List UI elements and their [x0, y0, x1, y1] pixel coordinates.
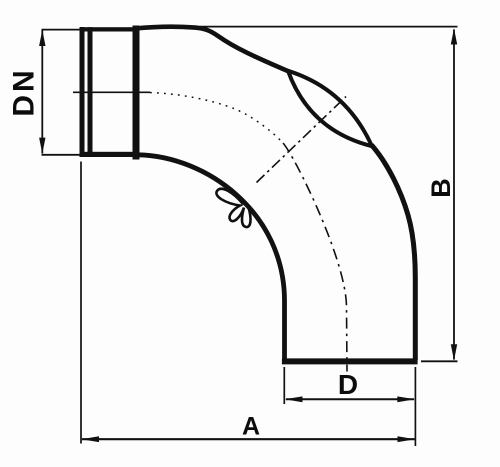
D arrow left	[285, 396, 303, 402]
D left extension line	[283, 367, 285, 404]
svg-text:DN: DN	[8, 67, 41, 116]
DN dimension line	[41, 31, 43, 154]
DN arrow down	[39, 138, 45, 154]
B arrow down	[451, 344, 457, 360]
pipe centerline horizontal segment	[73, 91, 150, 93]
outer wall: seam to outlet	[372, 145, 416, 360]
pipe centerline bend arc lower (dash-dot)	[283, 143, 347, 372]
pipe centerline bend arc (dotted)	[150, 93, 283, 143]
A arrow left	[81, 436, 99, 442]
socket-to-bend junction line	[133, 26, 140, 160]
outer wall: socket to seam	[135, 27, 290, 72]
DN arrow up	[39, 30, 45, 46]
B arrow up	[451, 28, 457, 44]
B bottom extension line	[421, 360, 458, 362]
DN top extension line	[42, 29, 85, 31]
B top extension line	[200, 26, 458, 28]
outlet bottom edge	[282, 358, 418, 364]
A arrow right	[398, 436, 416, 442]
weld seam lens inner arc	[288, 71, 372, 146]
socket mouth inner rim line	[88, 27, 93, 156]
svg-text:D: D	[338, 369, 358, 400]
socket bottom edge	[80, 152, 140, 157]
DN bottom extension line	[42, 154, 81, 156]
socket top edge	[80, 27, 140, 31]
inner wall arc	[136, 155, 285, 360]
svg-text:B: B	[426, 178, 456, 198]
A left extension line	[80, 162, 82, 444]
bend bisector dash-dot line	[257, 97, 347, 183]
weld seam lens outer arc	[288, 71, 372, 146]
A dimension line	[82, 438, 415, 440]
socket mouth outer rim line	[80, 27, 85, 157]
D dimension line	[286, 398, 414, 400]
svg-text:A: A	[242, 413, 260, 441]
A and D shared right extension line	[414, 367, 416, 446]
D arrow right	[397, 396, 415, 402]
B dimension line	[453, 30, 455, 360]
scribble mark on inner arc	[216, 189, 250, 227]
